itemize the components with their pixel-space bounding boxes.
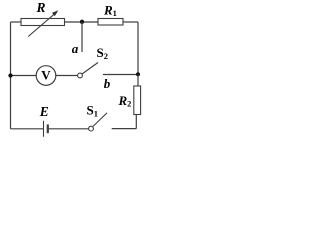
resistor R2 [134, 86, 141, 115]
resistor R (rheostat body) [21, 19, 65, 26]
battery E short plate [47, 124, 49, 133]
wire right vertical upper [137, 22, 139, 75]
wire contact a vertical [81, 22, 83, 52]
node junction dot top [80, 20, 84, 24]
label S2 [97, 45, 108, 61]
resistor R1 [98, 19, 123, 26]
svg-text:R1: R1 [103, 3, 117, 19]
svg-text:V: V [41, 68, 51, 83]
wire voltmeter branch left [11, 75, 37, 77]
node junction dot left [8, 73, 12, 77]
switch S2 pivot [78, 73, 83, 78]
wire voltmeter to switch [56, 75, 78, 77]
wire top-right horizontal [123, 21, 138, 23]
voltmeter V [36, 66, 56, 86]
label S1 [87, 103, 98, 119]
node junction dot right [136, 72, 140, 76]
svg-text:S2: S2 [97, 45, 108, 61]
svg-text:E: E [39, 104, 49, 119]
svg-text:R: R [35, 0, 45, 15]
svg-text:S1: S1 [87, 103, 98, 119]
svg-text:a: a [72, 41, 79, 56]
svg-text:b: b [104, 76, 111, 91]
switch S2 blade [82, 63, 98, 75]
wire contact b horizontal [103, 74, 138, 76]
switch S1 blade [93, 113, 107, 127]
wire battery to switch [48, 128, 89, 130]
wire right vertical lower [135, 115, 137, 129]
wire top-left horizontal [11, 21, 22, 23]
wire bottom left horizontal [11, 128, 44, 130]
wire top-middle horizontal [65, 21, 99, 23]
label R2 [118, 93, 132, 109]
rheostat arrow [28, 10, 58, 36]
switch S1 pivot [89, 126, 94, 131]
wire left vertical [10, 22, 12, 129]
battery E long plate [43, 121, 45, 137]
wire bottom right horizontal [112, 128, 137, 130]
svg-text:R2: R2 [118, 93, 132, 109]
wire right vertical middle [137, 75, 139, 87]
